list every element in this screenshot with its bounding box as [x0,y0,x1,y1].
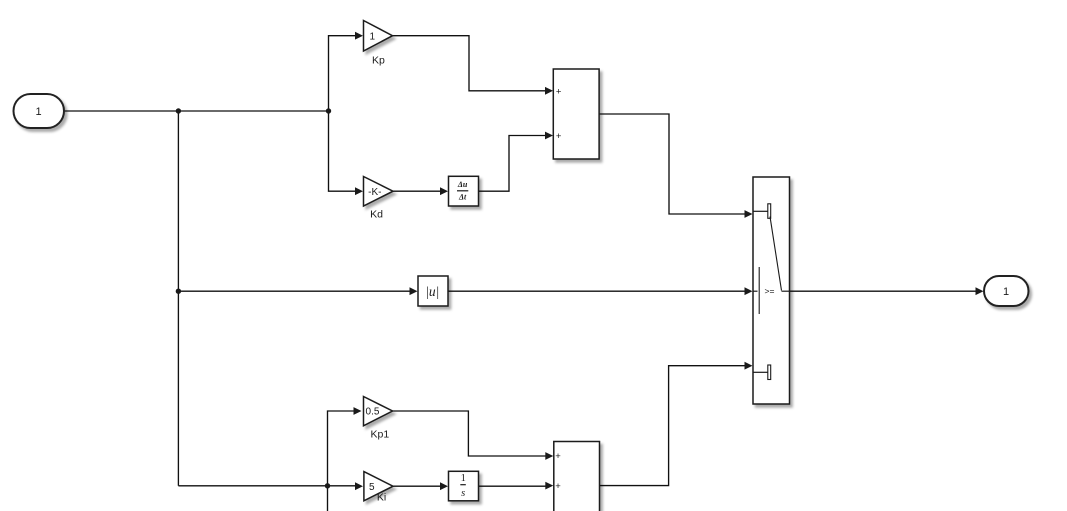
svg-text:Ki: Ki [377,492,386,504]
svg-text:Δt: Δt [458,192,467,201]
svg-text:Kp: Kp [372,54,385,66]
svg-text:+: + [556,87,562,98]
svg-text:s: s [461,488,465,499]
svg-text:Δu: Δu [457,180,468,189]
svg-text:|u|: |u| [425,284,439,299]
svg-text:+: + [555,451,561,462]
svg-text:>=: >= [765,286,775,296]
svg-text:Kd: Kd [370,208,383,220]
svg-text:+: + [556,131,562,142]
svg-text:+: + [555,481,561,492]
svg-text:1: 1 [461,473,466,484]
svg-text:-K-: -K- [368,187,381,198]
svg-text:Kp1: Kp1 [371,429,390,441]
svg-text:5: 5 [369,482,375,493]
svg-text:1: 1 [370,32,376,43]
svg-text:0.5: 0.5 [366,407,380,418]
svg-text:1: 1 [35,106,41,118]
svg-text:1: 1 [1003,286,1009,298]
